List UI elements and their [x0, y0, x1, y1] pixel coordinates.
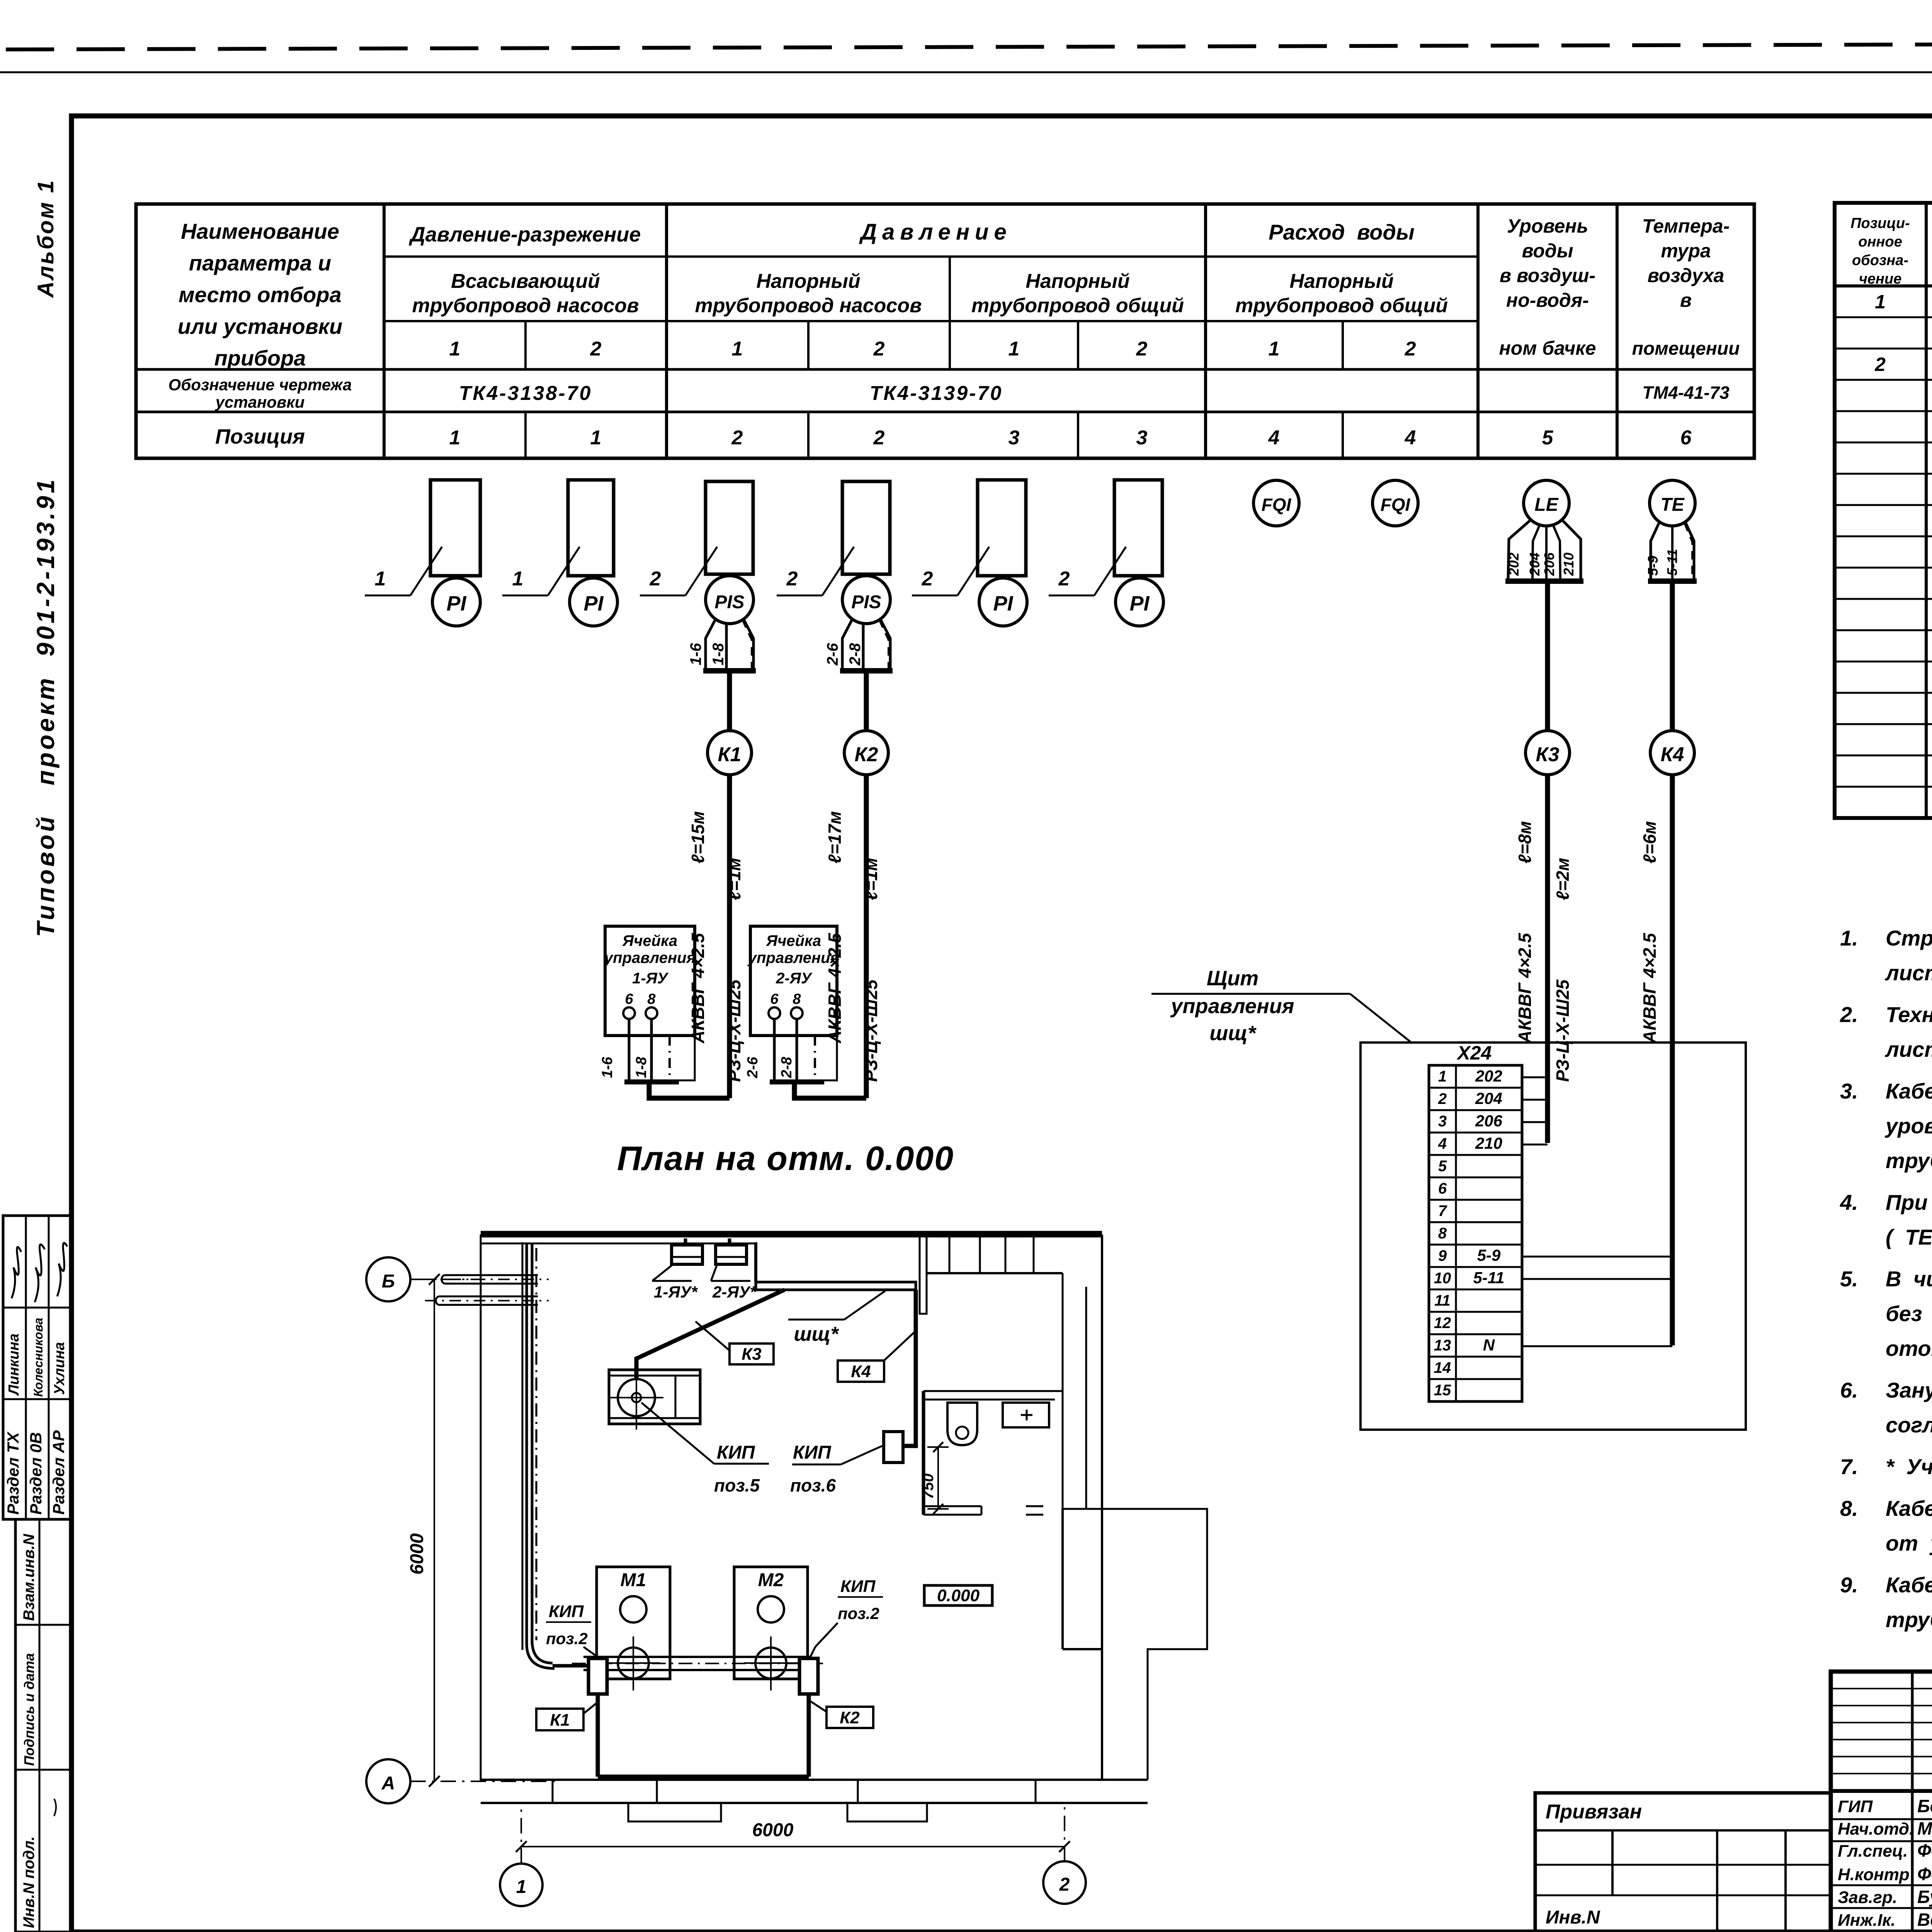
fan bottom bar (К3) — [1505, 578, 1583, 584]
cable К3 route on plan — [636, 1290, 784, 1379]
svg-text:поз.2: поз.2 — [838, 1604, 879, 1622]
svg-text:2: 2 — [1059, 1874, 1070, 1895]
svg-text:ТК4-3139-70: ТК4-3139-70 — [870, 382, 1003, 405]
cable bottom run К1-К2 — [598, 1775, 809, 1779]
cable К2 vertical rise — [807, 1694, 811, 1777]
svg-text:Фомина: Фомина — [1917, 1864, 1932, 1884]
svg-text:листов марки ТХ.: листов марки ТХ. — [1884, 1037, 1932, 1061]
svg-text:14: 14 — [1434, 1359, 1451, 1376]
instrument PI 1 (primary device rectangle) — [430, 480, 480, 576]
svg-text:2: 2 — [1438, 1090, 1447, 1107]
pipes through left wall — [444, 1275, 538, 1284]
svg-text:204: 204 — [1475, 1089, 1502, 1107]
label К1 box with leader — [536, 1709, 583, 1730]
svg-text:тура: тура — [1661, 240, 1711, 262]
svg-text:установки: установки — [215, 393, 305, 411]
svg-text:трубопровод насосов: трубопровод насосов — [412, 294, 639, 317]
svg-text:4.: 4. — [1840, 1190, 1858, 1214]
elevation label 0.000 — [924, 1585, 992, 1605]
junction fan below LE — [1508, 520, 1581, 580]
svg-text:К4: К4 — [851, 1362, 871, 1381]
svg-text:4: 4 — [1268, 427, 1280, 449]
svg-text:К1: К1 — [718, 743, 742, 766]
svg-text:PI: PI — [583, 592, 604, 615]
svg-text:Альбом 1: Альбом 1 — [33, 179, 58, 298]
parts table row 7 line — [1835, 504, 1932, 506]
svg-text:12: 12 — [1434, 1315, 1451, 1332]
svg-text:6000: 6000 — [752, 1820, 794, 1840]
svg-text:Раздел ТХ: Раздел ТХ — [4, 1431, 22, 1515]
svg-text:6.: 6. — [1840, 1378, 1858, 1402]
svg-text:2: 2 — [731, 427, 743, 449]
svg-text:трубопровод общий: трубопровод общий — [1235, 294, 1448, 317]
svg-text:6: 6 — [770, 991, 779, 1007]
svg-text:Вестерская: Вестерская — [1917, 1910, 1932, 1930]
svg-text:без электроотопления, в знамен: без электроотопления, в знаменателе с эл… — [1886, 1301, 1932, 1326]
svg-text:5: 5 — [1438, 1158, 1447, 1175]
control cell box 2-ЯУ (Ячейка управления) — [750, 926, 837, 1036]
right wing outline — [1102, 1509, 1207, 1780]
svg-text:* Учтено в разделе ЭМ.: * Учтено в разделе ЭМ. — [1886, 1454, 1932, 1479]
svg-text:Щит: Щит — [1207, 967, 1259, 990]
svg-text:КИП: КИП — [549, 1602, 584, 1621]
svg-text:4: 4 — [1405, 427, 1416, 449]
svg-text:2: 2 — [786, 568, 798, 590]
svg-text:Ухлина: Ухлина — [51, 1342, 68, 1395]
terminal 8 of 1-ЯУ — [646, 1007, 657, 1019]
svg-text:206: 206 — [1541, 552, 1557, 576]
cable К4 route on plan — [905, 1290, 916, 1446]
label КИП поз.5 with leader — [641, 1403, 714, 1464]
grid axis А bubble — [366, 1759, 410, 1803]
svg-text:трубопровод насосов: трубопровод насосов — [695, 294, 922, 317]
svg-text:Наименование: Наименование — [181, 219, 339, 243]
pump unit М1 — [597, 1567, 670, 1679]
svg-text:Инв.N: Инв.N — [1546, 1907, 1600, 1928]
svg-text:7.: 7. — [1840, 1454, 1858, 1479]
svg-text:1-8: 1-8 — [633, 1056, 650, 1078]
svg-text:5-11: 5-11 — [1664, 549, 1680, 576]
svg-text:10: 10 — [1434, 1270, 1451, 1287]
sink fixture — [1003, 1403, 1049, 1427]
svg-text:Давление: Давление — [859, 219, 1012, 245]
foundation tab 2 — [847, 1803, 927, 1821]
svg-text:1: 1 — [449, 338, 461, 360]
position leader 2 for instrument 4 — [777, 595, 822, 597]
svg-text:2-8: 2-8 — [847, 643, 864, 666]
binding block (Привязан) — [1535, 1793, 1831, 1932]
svg-text:онное: онное — [1858, 234, 1902, 250]
svg-text:2: 2 — [1058, 568, 1070, 590]
svg-text:от уровня пола и кабель кре: от уровня пола и кабель крепится к стене… — [1886, 1531, 1932, 1555]
sheet top edge thin line — [0, 71, 1932, 73]
svg-text:2: 2 — [590, 338, 602, 360]
instrument TE (temperature sensor) circle — [1650, 480, 1695, 526]
svg-text:13: 13 — [1434, 1337, 1451, 1354]
svg-text:ℓ=8м: ℓ=8м — [1515, 821, 1535, 864]
dimension 750 — [937, 1447, 939, 1509]
svg-text:РЗ-Ц-Х-Ш25: РЗ-Ц-Х-Ш25 — [1553, 979, 1573, 1082]
left margin table: sections/names/signatures — [3, 1216, 72, 1519]
svg-text:параметра и: параметра и — [189, 251, 331, 275]
svg-text:1-6: 1-6 — [599, 1056, 616, 1078]
instrument PI 6 circle — [1116, 578, 1163, 626]
horizontal dimension 6000 — [521, 1846, 1065, 1847]
parameter table column lines — [383, 204, 386, 458]
svg-text:К2: К2 — [855, 743, 878, 766]
svg-text:1-8: 1-8 — [710, 643, 727, 665]
label 1-ЯУ* with leader — [652, 1280, 692, 1282]
label КИП поз.6 with leader — [841, 1446, 882, 1464]
partition at panel recess — [754, 1242, 757, 1282]
svg-text:М1: М1 — [621, 1570, 646, 1590]
svg-text:поз.6: поз.6 — [790, 1475, 836, 1495]
wall box 1-ЯУ — [672, 1245, 702, 1264]
svg-text:ℓ=15м: ℓ=15м — [688, 811, 708, 864]
svg-text:ТК4-3138-70: ТК4-3138-70 — [459, 382, 592, 405]
svg-text:К4: К4 — [1661, 743, 1684, 766]
svg-text:Позиция: Позиция — [215, 425, 305, 448]
junction outline below 1-ЯУ — [673, 1036, 695, 1080]
svg-text:Взам.инв.N: Взам.инв.N — [20, 1534, 37, 1621]
svg-text:Кабель „К3“ прокладывается в: Кабель „К3“ прокладывается в полу в поли… — [1886, 1573, 1932, 1597]
svg-text:Позици-: Позици- — [1850, 215, 1910, 231]
parts table row 6 line — [1835, 473, 1932, 475]
cable К1 upper segment — [727, 673, 732, 731]
position leader 2 for instrument 5 — [912, 595, 957, 597]
svg-text:PI: PI — [446, 592, 466, 615]
parts table row 1 line — [1835, 316, 1932, 318]
svg-text:8: 8 — [793, 991, 801, 1007]
svg-text:К2: К2 — [840, 1708, 860, 1727]
svg-text:К3: К3 — [742, 1345, 762, 1364]
svg-text:FQI: FQI — [1262, 495, 1292, 515]
toilet fixture — [947, 1403, 977, 1445]
svg-text:ГИП: ГИП — [1838, 1797, 1873, 1816]
svg-text:ℓ=6м: ℓ=6м — [1639, 821, 1660, 864]
svg-text:210: 210 — [1561, 553, 1577, 576]
parameter table frame — [136, 204, 1754, 458]
junction box КИП поз.2 left — [588, 1658, 607, 1694]
svg-text:управления: управления — [747, 949, 839, 966]
cable marker circle К3 — [1526, 731, 1570, 775]
svg-text:6: 6 — [625, 991, 633, 1007]
svg-text:Расход воды: Расход воды — [1269, 220, 1415, 244]
svg-text:5.: 5. — [1840, 1267, 1858, 1291]
wire from X24 terminal 10 to cable К4 — [1522, 1278, 1672, 1280]
svg-text:поз.5: поз.5 — [714, 1475, 760, 1495]
svg-text:1: 1 — [1438, 1068, 1447, 1085]
svg-text:8: 8 — [647, 991, 656, 1007]
position leader 2 for instrument 6 — [1049, 595, 1094, 597]
svg-text:1: 1 — [1009, 338, 1020, 360]
svg-text:Зав.гр.: Зав.гр. — [1838, 1888, 1897, 1907]
svg-text:Технологическая часть прин: Технологическая часть принята на основан… — [1886, 1002, 1932, 1027]
parts table row 11 line — [1835, 629, 1932, 631]
svg-text:помещении: помещении — [1632, 338, 1740, 359]
svg-text:отоплением.: отоплением. — [1886, 1336, 1932, 1361]
wires from 1-ЯУ terminals down — [628, 1019, 631, 1082]
wall: right side stair block — [1101, 1235, 1103, 1509]
stair rail — [920, 1235, 927, 1314]
fan bottom bar (К2) — [840, 668, 893, 673]
parts table row 9 line — [1835, 567, 1932, 569]
svg-text:План на отм. 0.000: План на отм. 0.000 — [617, 1139, 954, 1177]
grid axis Б bubble — [366, 1257, 410, 1301]
instrument PI 1 circle — [432, 578, 480, 626]
control cell box 1-ЯУ (Ячейка управления) — [605, 926, 695, 1036]
svg-text:АКВВГ 4×2.5: АКВВГ 4×2.5 — [1515, 932, 1535, 1044]
svg-text:трубопровод общий: трубопровод общий — [971, 294, 1184, 317]
instrument PIS 3 (primary device rectangle) — [706, 481, 753, 574]
cable К4 upper segment — [1670, 583, 1675, 731]
label шщ* with leader — [788, 1319, 844, 1321]
svg-text:Строительная часть принята: Строительная часть принята на основании — [1886, 926, 1932, 950]
svg-text:750: 750 — [920, 1473, 937, 1499]
svg-text:8.: 8. — [1840, 1496, 1858, 1520]
svg-text:Давление-разрежение: Давление-разрежение — [409, 223, 641, 246]
instrument PI 6 (primary device rectangle) — [1114, 480, 1162, 576]
vertical dimension 6000 — [434, 1279, 435, 1781]
svg-text:Н.контр: Н.контр — [1838, 1865, 1910, 1884]
svg-text:ℓ=1м: ℓ=1м — [861, 858, 881, 900]
svg-text:ном бачке: ном бачке — [1499, 337, 1596, 359]
svg-text:1: 1 — [1269, 338, 1280, 360]
parts table row 13 line — [1835, 692, 1932, 694]
svg-text:X24: X24 — [1456, 1042, 1492, 1064]
svg-text:Уровень: Уровень — [1507, 215, 1588, 237]
svg-text:Москалец: Москалец — [1917, 1818, 1932, 1838]
junction fan below TE — [1651, 522, 1694, 580]
wire from X24 terminal 9 to cable К4 — [1522, 1256, 1672, 1258]
svg-text:согласно ПУЭ-85 п.1.7.39.: согласно ПУЭ-85 п.1.7.39. — [1886, 1413, 1932, 1437]
junction fan below PIS (К2 head) — [842, 618, 890, 669]
svg-text:Гл.спец.: Гл.спец. — [1838, 1842, 1908, 1861]
svg-text:воды: воды — [1522, 240, 1573, 262]
svg-text:М2: М2 — [758, 1570, 784, 1590]
junction bottom bar 2-ЯУ — [770, 1080, 824, 1085]
pump М2 coupling — [755, 1648, 786, 1679]
svg-text:КИП: КИП — [840, 1577, 876, 1596]
label 2-ЯУ* with leader — [711, 1280, 750, 1282]
parts table row 3 line — [1835, 379, 1932, 381]
title block vertical lines — [1911, 1672, 1914, 1932]
svg-text:Кабели, проложенные на высот: Кабели, проложенные на высоте до 2-х мет… — [1886, 1079, 1932, 1103]
instrument PIS 3 circle — [706, 576, 753, 624]
svg-text:Типовой проект 901-2-193.91: Типовой проект 901-2-193.91 — [32, 477, 60, 937]
svg-text:обозна-: обозна- — [1852, 252, 1908, 269]
svg-text:Напорный: Напорный — [1289, 270, 1393, 293]
cable К2 lower segment — [864, 774, 869, 1098]
svg-text:или установки: или установки — [178, 314, 342, 338]
cable К4 lower segment to control panel — [1670, 774, 1675, 1345]
svg-text:15: 15 — [1434, 1382, 1451, 1399]
svg-text:202: 202 — [1475, 1067, 1502, 1085]
svg-text:РЗ-Ц-Х-Ш25: РЗ-Ц-Х-Ш25 — [861, 979, 881, 1082]
svg-text:2-6: 2-6 — [745, 1056, 761, 1078]
svg-text:1.: 1. — [1840, 926, 1858, 950]
gauge unit КИП поз.5 — [609, 1370, 700, 1424]
instrument PI 5 circle — [979, 578, 1027, 626]
svg-text:1: 1 — [375, 568, 386, 590]
instrument PI 5 (primary device rectangle) — [978, 480, 1026, 576]
parts table frame — [1835, 203, 1932, 818]
svg-text:в воздуш-: в воздуш- — [1500, 265, 1595, 286]
svg-text:Напорный: Напорный — [756, 270, 860, 293]
wall: top exterior — [481, 1231, 1102, 1238]
svg-text:ℓ=2м: ℓ=2м — [1553, 858, 1573, 900]
svg-text:4: 4 — [1438, 1135, 1447, 1152]
instrument PIS 4 (primary device rectangle) — [842, 481, 890, 574]
position leader 2 for instrument 3 — [640, 595, 685, 597]
torn paper dashed edge top — [6, 43, 1932, 49]
svg-text:PIS: PIS — [851, 592, 881, 612]
svg-text:2: 2 — [1136, 338, 1148, 360]
svg-text:но-водя-: но-водя- — [1506, 289, 1589, 311]
svg-text:поз.2: поз.2 — [546, 1629, 588, 1648]
svg-text:ℓ=17м: ℓ=17м — [825, 811, 845, 864]
parts table row 17 line — [1835, 817, 1932, 819]
svg-text:ТМ4-41-73: ТМ4-41-73 — [1642, 383, 1730, 403]
svg-text:2-ЯУ*: 2-ЯУ* — [712, 1283, 757, 1301]
parts table row 14 line — [1835, 723, 1932, 725]
svg-text:Белянинов: Белянинов — [1917, 1796, 1932, 1816]
instrument FQI 2 — [1372, 480, 1418, 526]
instrument LE (level sensor) circle — [1524, 480, 1569, 526]
svg-text:Бурыгин: Бурыгин — [1917, 1887, 1932, 1907]
svg-text:Подпись и дата: Подпись и дата — [21, 1653, 37, 1766]
svg-text:2: 2 — [873, 338, 885, 360]
wire from X24 terminal 13 (N) to cable К4 — [1522, 1345, 1672, 1347]
junction outline below 2-ЯУ — [819, 1036, 837, 1080]
svg-text:3: 3 — [1009, 427, 1020, 449]
parts table row 2 line — [1835, 348, 1932, 350]
instrument PI 2 (primary device rectangle) — [568, 480, 614, 576]
wires from 2-ЯУ terminals down — [773, 1019, 776, 1082]
wall: bottom exterior band — [481, 1779, 1148, 1781]
svg-text:TE: TE — [1660, 495, 1685, 515]
svg-text:Нач.отд.: Нач.отд. — [1838, 1820, 1914, 1838]
svg-text:чение: чение — [1859, 271, 1902, 287]
junction bottom bar 1-ЯУ — [624, 1080, 679, 1085]
bathroom walls — [923, 1391, 1063, 1400]
svg-text:А: А — [381, 1773, 395, 1794]
svg-text:листов марки АР.: листов марки АР. — [1884, 961, 1932, 985]
svg-text:206: 206 — [1475, 1112, 1503, 1130]
parts table row 4 line — [1835, 410, 1932, 412]
cable К1 vertical drop — [596, 1694, 600, 1777]
svg-text:2: 2 — [922, 568, 933, 590]
svg-text:1-ЯУ: 1-ЯУ — [632, 970, 669, 987]
svg-text:ℓ=1м: ℓ=1м — [724, 858, 744, 900]
svg-text:3.: 3. — [1840, 1079, 1858, 1103]
svg-text:2-6: 2-6 — [824, 643, 841, 666]
control panel ШЩ on plan — [756, 1282, 916, 1290]
svg-text:5-9: 5-9 — [1645, 556, 1661, 576]
terminal 8 of 2-ЯУ — [791, 1007, 803, 1019]
fan bottom bar (К1) — [703, 668, 756, 673]
svg-text:202: 202 — [1506, 553, 1522, 576]
svg-text:воздуха: воздуха — [1648, 265, 1725, 286]
foundation joints bottom wall — [552, 1780, 554, 1803]
parts table row 15 line — [1835, 755, 1932, 757]
svg-text:АКВВГ 4×2.5: АКВВГ 4×2.5 — [1639, 932, 1660, 1044]
parts table row 10 line — [1835, 598, 1932, 600]
control panel box (Щит управления ШЩ) — [1361, 1043, 1746, 1430]
svg-text:КИП: КИП — [717, 1442, 755, 1463]
svg-text:К3: К3 — [1536, 743, 1560, 766]
svg-text:1-ЯУ*: 1-ЯУ* — [654, 1283, 698, 1301]
svg-text:9: 9 — [1438, 1247, 1447, 1264]
svg-text:уровня пола , защищаются п: уровня пола , защищаются поливинилхлорид… — [1884, 1114, 1932, 1138]
right wall inner lines — [1085, 1287, 1087, 1509]
svg-text:Обозначение чертежа: Обозначение чертежа — [168, 376, 352, 394]
parts table column lines — [1925, 203, 1928, 818]
svg-text:В числителе указана длина: В числителе указана длина кабеля при вар… — [1886, 1267, 1932, 1291]
title block outer frame — [1831, 1672, 1932, 1932]
svg-text:трубах. Трубы для прокладки: трубах. Трубы для прокладки кабеля учтен… — [1886, 1607, 1932, 1632]
svg-text:PIS: PIS — [714, 592, 744, 612]
svg-text:2-ЯУ: 2-ЯУ — [776, 970, 813, 987]
stairwell treads — [926, 1235, 928, 1273]
cable trunk in left wall (К1/К2 route) — [526, 1244, 528, 1644]
svg-text:7: 7 — [1438, 1202, 1447, 1219]
left margin strip: Взам.инв.N / Подпись и дата / Инв.N подл. — [15, 1519, 72, 1932]
svg-text:2-8: 2-8 — [779, 1056, 795, 1078]
label К2 box with leader — [827, 1707, 873, 1728]
svg-text:прибора: прибора — [214, 346, 306, 370]
grid axis 1 bubble — [500, 1864, 543, 1906]
parts table header band — [1835, 284, 1932, 287]
svg-text:6: 6 — [1680, 427, 1692, 449]
parameter table row lines — [384, 255, 1478, 258]
cable К1 lower segment — [727, 774, 732, 1098]
svg-text:Всасывающий: Всасывающий — [451, 270, 600, 293]
svg-text:место отбора: место отбора — [179, 282, 341, 307]
parts table row 8 line — [1835, 536, 1932, 537]
position leader 1 for instrument 1 — [365, 595, 410, 597]
svg-text:2: 2 — [1405, 338, 1416, 360]
instrument PI 2 circle — [570, 578, 617, 626]
svg-text:2: 2 — [873, 427, 885, 449]
cable К2 upper segment — [864, 673, 869, 731]
svg-text:1: 1 — [732, 338, 743, 360]
svg-text:2.: 2. — [1840, 1002, 1858, 1027]
svg-text:204: 204 — [1527, 553, 1543, 576]
svg-text:Федотов: Федотов — [1917, 1840, 1932, 1861]
svg-text:РЗ-Ц-Х-Ш25: РЗ-Ц-Х-Ш25 — [724, 979, 744, 1082]
pump unit М2 — [734, 1567, 808, 1679]
svg-text:Ячейка: Ячейка — [622, 932, 677, 949]
pipe between pumps — [583, 1657, 811, 1670]
instrument PIS 4 circle — [842, 576, 890, 624]
svg-text:При варианте без электроот: При варианте без электроотопления позици… — [1886, 1190, 1932, 1214]
cable marker circle К1 — [707, 731, 752, 775]
junction fan below PIS (К1 head) — [706, 618, 753, 669]
svg-text:управления: управления — [1170, 995, 1294, 1018]
cable marker circle К4 — [1650, 731, 1694, 775]
wire from 1-ЯУ to cable — [649, 1084, 730, 1098]
wall box 2-ЯУ — [716, 1245, 747, 1264]
fan bottom bar (К4) — [1648, 578, 1697, 584]
svg-text:К1: К1 — [550, 1711, 570, 1730]
position leader 1 for instrument 2 — [502, 595, 548, 597]
svg-text:PI: PI — [993, 592, 1013, 615]
pump М1 coupling — [618, 1648, 649, 1679]
svg-text:Раздел 0В: Раздел 0В — [27, 1432, 45, 1515]
svg-text:1: 1 — [1875, 291, 1886, 313]
label К3 box — [730, 1344, 774, 1364]
